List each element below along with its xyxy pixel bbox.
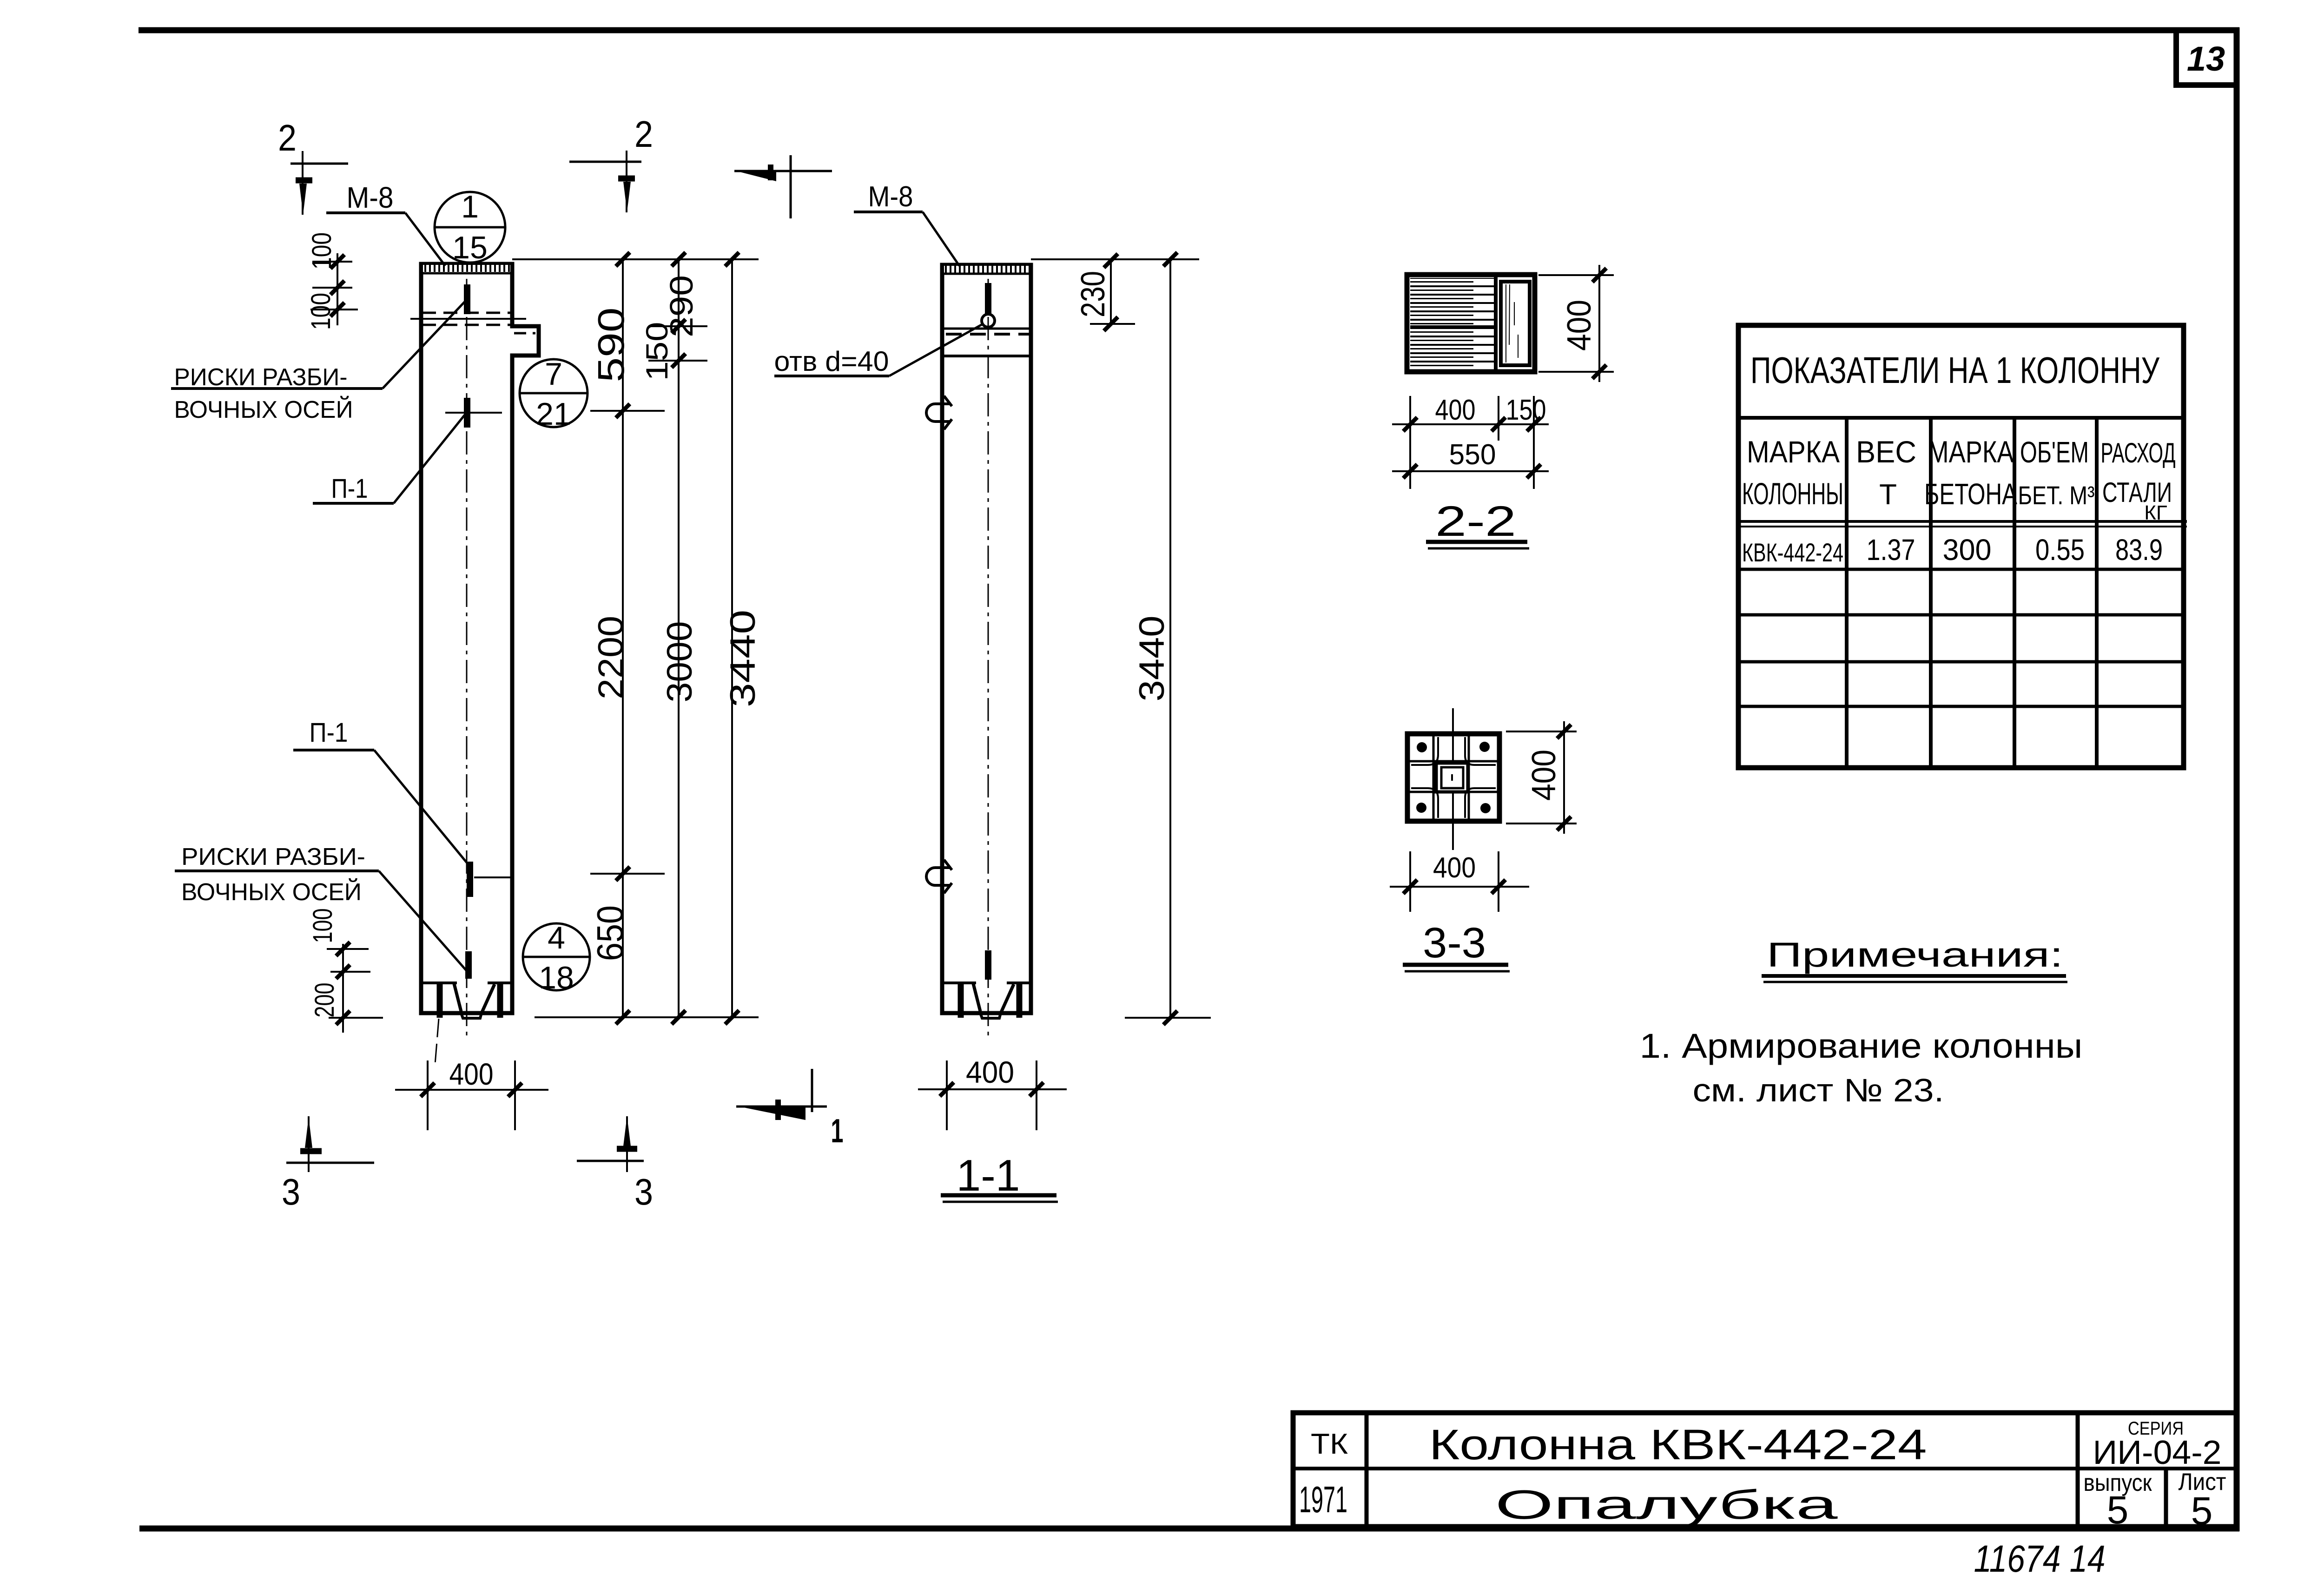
section marker 1 bottom (cut 1-1) xyxy=(736,1106,827,1108)
grain lines in console xyxy=(1506,284,1518,362)
dim 3440 mid xyxy=(1169,257,1171,1018)
table header top line xyxy=(1738,416,2184,420)
svg-text:МАРКА: МАРКА xyxy=(1928,435,2014,469)
table row line 2 xyxy=(1738,613,2184,617)
foot notch bottom tab xyxy=(461,1013,482,1018)
foot notch slants xyxy=(973,984,1014,1013)
svg-text:18: 18 xyxy=(539,960,574,995)
title block col line before seriya xyxy=(2076,1413,2080,1527)
svg-text:БЕТОНА: БЕТОНА xyxy=(1924,477,2017,511)
svg-text:3: 3 xyxy=(634,1171,653,1212)
callout circle 1/15 xyxy=(435,192,505,263)
svg-text:2-2: 2-2 xyxy=(1435,498,1516,545)
svg-text:590: 590 xyxy=(590,308,632,382)
solid line xyxy=(942,355,1031,357)
section marker 4 top (cut 1-1) xyxy=(734,170,832,172)
svg-text:13: 13 xyxy=(2187,40,2225,78)
section 3-3 centerline xyxy=(1452,708,1454,850)
title block col line vypusk/list xyxy=(2164,1469,2168,1527)
svg-text:230: 230 xyxy=(1075,271,1112,317)
table row line 1 xyxy=(1738,568,2184,571)
leader riski upper xyxy=(383,301,465,389)
hole otv d=40 xyxy=(982,314,995,327)
axis line P-1 lower xyxy=(474,876,514,878)
svg-text:ВОЧНЫХ ОСЕЙ: ВОЧНЫХ ОСЕЙ xyxy=(181,878,362,906)
svg-text:РАСХОД: РАСХОД xyxy=(2101,437,2176,468)
svg-text:2: 2 xyxy=(278,117,297,158)
svg-text:ВЕС: ВЕС xyxy=(1856,435,1916,469)
table row line 4 xyxy=(1738,705,2184,708)
dim row 550 xyxy=(1392,470,1549,472)
dim 400 bottom of mid column xyxy=(918,1088,1067,1090)
lifting hook upper xyxy=(926,404,951,422)
svg-text:Опалубка: Опалубка xyxy=(1495,1482,1838,1528)
svg-text:100: 100 xyxy=(308,909,338,943)
svg-text:М-8: М-8 xyxy=(868,181,913,213)
svg-text:2: 2 xyxy=(634,113,653,155)
svg-text:7: 7 xyxy=(545,356,562,392)
svg-text:1: 1 xyxy=(461,189,479,224)
foot rebar mark right xyxy=(1017,984,1023,1018)
axis line P-1 upper xyxy=(445,412,502,414)
svg-text:МАРКА: МАРКА xyxy=(1747,435,1840,469)
svg-text:КОЛОННЫ: КОЛОННЫ xyxy=(1742,476,1843,511)
section 3-3 outer outline xyxy=(1407,734,1499,821)
dim 230 xyxy=(1110,261,1112,324)
console inner rect xyxy=(1501,282,1530,365)
riska mark P-1 upper xyxy=(464,398,470,428)
svg-text:ТК: ТК xyxy=(1311,1428,1348,1460)
svg-text:650: 650 xyxy=(589,905,631,961)
dim 400 bottom of left column xyxy=(395,1089,548,1091)
svg-text:200: 200 xyxy=(310,983,340,1018)
riska mark P-1 lower xyxy=(467,862,473,897)
svg-text:300: 300 xyxy=(1943,533,1992,567)
svg-text:400: 400 xyxy=(966,1055,1014,1089)
callout circle 4/18 xyxy=(523,923,590,990)
page frame bottom border xyxy=(139,1526,2239,1532)
riska mark top xyxy=(985,283,991,314)
foot notch slants xyxy=(454,984,495,1013)
dim line 3440 left xyxy=(731,257,733,1017)
svg-text:ВОЧНЫХ ОСЕЙ: ВОЧНЫХ ОСЕЙ xyxy=(174,396,353,423)
svg-text:400: 400 xyxy=(1561,300,1598,351)
section 2-2 outer outline xyxy=(1407,275,1535,372)
leader M-8 xyxy=(405,213,445,266)
svg-text:15: 15 xyxy=(452,230,488,265)
hidden dashed line xyxy=(946,333,1029,336)
lifting hook lower xyxy=(926,868,951,885)
foot top line xyxy=(942,982,1031,984)
svg-text:400: 400 xyxy=(449,1057,494,1091)
dim line 590/2200/650 xyxy=(622,257,624,1017)
svg-text:11674 14: 11674 14 xyxy=(1974,1538,2106,1580)
hatched concrete part xyxy=(1410,278,1494,369)
line under cap xyxy=(942,328,1031,330)
leader otv xyxy=(889,324,982,376)
svg-text:Т: Т xyxy=(1879,479,1897,511)
svg-text:ОБ'ЕМ: ОБ'ЕМ xyxy=(2020,435,2089,469)
corner chamfer BR xyxy=(1465,788,1496,818)
inner grid vertical left xyxy=(1433,736,1435,819)
svg-text:РИСКИ РАЗБИ-: РИСКИ РАЗБИ- xyxy=(181,843,365,870)
riska mark top xyxy=(464,284,470,314)
table col line 3 xyxy=(2013,418,2016,768)
svg-text:150: 150 xyxy=(1506,394,1546,426)
column centerline xyxy=(466,279,468,1041)
svg-text:П-1: П-1 xyxy=(331,474,368,504)
svg-text:550: 550 xyxy=(1449,439,1496,471)
riska mark bottom xyxy=(985,950,991,980)
foot rebar mark left xyxy=(958,984,964,1018)
table double line a xyxy=(1738,520,2187,523)
svg-text:1. Армирование колонны: 1. Армирование колонны xyxy=(1640,1027,2083,1065)
corner bolt dots xyxy=(1417,742,1427,752)
corner chamfer TR xyxy=(1465,737,1496,765)
table col line 1 xyxy=(1845,418,1849,768)
svg-text:5: 5 xyxy=(2107,1488,2129,1532)
svg-text:РИСКИ РАЗБИ-: РИСКИ РАЗБИ- xyxy=(174,364,348,391)
svg-text:КВК-442-24: КВК-442-24 xyxy=(1742,538,1843,567)
page frame top border xyxy=(139,27,2239,33)
thin extension dash under foot xyxy=(435,1019,439,1064)
title block col line after TK xyxy=(1365,1413,1369,1527)
svg-text:3: 3 xyxy=(282,1171,300,1212)
title block row divider xyxy=(1293,1467,2237,1470)
svg-text:3-3: 3-3 xyxy=(1423,919,1486,967)
svg-text:100: 100 xyxy=(306,293,336,330)
corner chamfer TL xyxy=(1411,737,1438,765)
hidden dashed line xyxy=(422,312,511,314)
column cap hatched strip xyxy=(944,266,1029,273)
svg-text:4: 4 xyxy=(548,920,565,955)
bottom dim 400 of 3-3 xyxy=(1390,886,1529,888)
table row line 3 xyxy=(1738,660,2184,664)
svg-text:Примечания:: Примечания: xyxy=(1767,935,2063,974)
dim row 400/150 xyxy=(1392,423,1549,425)
mid horizontal line xyxy=(1410,325,1494,328)
svg-text:21: 21 xyxy=(536,396,571,432)
column cap hatched strip xyxy=(423,265,510,272)
svg-text:ПОКАЗАТЕЛИ НА 1 КОЛОННУ: ПОКАЗАТЕЛИ НА 1 КОЛОННУ xyxy=(1750,349,2160,391)
inner grid vertical right xyxy=(1468,736,1470,819)
svg-text:100: 100 xyxy=(307,232,337,270)
svg-text:1.37: 1.37 xyxy=(1867,533,1915,567)
svg-text:400: 400 xyxy=(1433,852,1476,884)
page frame right border xyxy=(2234,27,2240,1531)
svg-text:5: 5 xyxy=(2191,1489,2213,1533)
dim line 290/150/3000 xyxy=(678,257,680,1017)
svg-text:0.55: 0.55 xyxy=(2035,533,2085,567)
divider line xyxy=(1494,275,1498,372)
bracket dashed line xyxy=(514,332,535,335)
foot notch bottom tab xyxy=(980,1013,1001,1018)
leader M-8 mid xyxy=(923,212,959,266)
dim 100/100 top left xyxy=(337,253,338,325)
table col line 4 xyxy=(2095,418,2099,768)
svg-text:см. лист № 23.: см. лист № 23. xyxy=(1693,1072,1944,1108)
svg-text:отв d=40: отв d=40 xyxy=(774,346,889,377)
center keyway xyxy=(1436,763,1468,792)
right dim 400 of 2-2 xyxy=(1538,274,1614,276)
svg-text:83.9: 83.9 xyxy=(2115,533,2163,567)
svg-text:3440: 3440 xyxy=(723,610,763,707)
top dimension connector line xyxy=(512,258,759,260)
table double line b xyxy=(1738,526,2187,527)
callout circle 7/21 xyxy=(520,359,588,427)
svg-text:КГ: КГ xyxy=(2144,501,2167,524)
left column elevation outline xyxy=(421,264,539,1013)
foot rebar mark left xyxy=(437,984,443,1018)
inner grid horizontal top xyxy=(1410,760,1497,763)
corner chamfer BL xyxy=(1411,788,1438,818)
svg-text:400: 400 xyxy=(1525,750,1563,801)
dim 100/200 bottom left xyxy=(342,944,344,1033)
column centerline xyxy=(988,279,989,1041)
svg-text:1: 1 xyxy=(831,1113,844,1150)
foot rebar mark right xyxy=(497,984,503,1018)
svg-text:150: 150 xyxy=(640,322,674,381)
svg-text:400: 400 xyxy=(1435,394,1476,426)
svg-text:БЕТ. М³: БЕТ. М³ xyxy=(2018,481,2095,510)
table col line 2 xyxy=(1929,418,1933,768)
inner grid horizontal bottom xyxy=(1410,791,1497,793)
hidden dashed line 2 xyxy=(422,324,511,326)
leader P-1 upper xyxy=(394,414,466,503)
svg-text:М-8: М-8 xyxy=(347,181,394,214)
sheet number box xyxy=(2176,30,2237,85)
svg-text:П-1: П-1 xyxy=(310,718,348,748)
title block outer frame xyxy=(1293,1413,2237,1527)
leader riski lower xyxy=(379,871,466,970)
foot top line xyxy=(421,982,512,984)
svg-text:Колонна КВК-442-24: Колонна КВК-442-24 xyxy=(1429,1421,1927,1469)
svg-text:3000: 3000 xyxy=(660,621,700,703)
top dimension connector line mid xyxy=(1031,258,1199,260)
leader P-1 lower xyxy=(374,750,469,865)
svg-text:ИИ-04-2: ИИ-04-2 xyxy=(2093,1434,2222,1471)
column section 1-1 outline xyxy=(942,265,1031,1013)
riska mark bottom xyxy=(465,951,472,979)
axis line top xyxy=(410,318,526,320)
svg-text:1-1: 1-1 xyxy=(957,1151,1020,1200)
svg-text:3440: 3440 xyxy=(1132,616,1172,702)
svg-text:1971: 1971 xyxy=(1299,1479,1347,1520)
svg-text:2200: 2200 xyxy=(591,616,631,699)
right dim 400 of 3-3 xyxy=(1506,731,1577,732)
bottom dimension connector line xyxy=(535,1016,759,1018)
table outer frame xyxy=(1738,325,2184,768)
